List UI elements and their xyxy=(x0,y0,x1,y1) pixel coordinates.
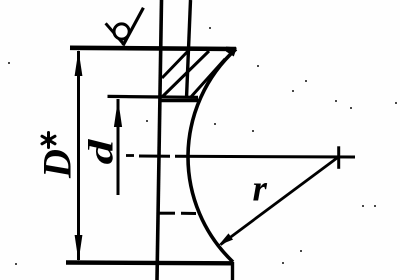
centerline segment 3 xyxy=(175,155,355,159)
wire: right-edge projection line (lower) xyxy=(231,262,234,280)
hidden line dash 1 xyxy=(159,212,175,215)
hatch line 3 xyxy=(190,59,225,98)
surface finish symbol: circle xyxy=(114,24,129,39)
arrowhead D* bottom xyxy=(75,235,83,262)
top-right corner blob xyxy=(226,47,237,57)
arrowhead r xyxy=(219,233,234,245)
wire: groove-bottom projection line (upper) xyxy=(187,0,191,98)
extension line for d xyxy=(108,96,199,97)
groove arc (right profile) xyxy=(188,49,236,262)
bottom face line xyxy=(66,260,233,265)
dimension line D* xyxy=(77,51,80,260)
dimension line d xyxy=(117,99,120,195)
hatch line 1 xyxy=(162,50,189,78)
top face line xyxy=(70,48,236,49)
hatch line 2 xyxy=(162,51,209,97)
wire: left face projection line (full height) xyxy=(157,0,162,280)
arrowhead d xyxy=(114,99,122,127)
centerline segment 2 xyxy=(139,155,170,158)
surface finish symbol: right stroke xyxy=(123,8,143,46)
svg-text:D: D xyxy=(35,149,80,179)
center cross tick xyxy=(337,146,340,169)
label D* asterisk xyxy=(42,133,55,148)
rim inner edge line xyxy=(160,99,200,102)
svg-text:r: r xyxy=(253,169,268,210)
centerline dash 1 xyxy=(126,154,134,157)
surface finish symbol: left arm xyxy=(106,23,124,44)
dimension line r xyxy=(221,157,339,245)
svg-text:d: d xyxy=(82,138,120,165)
arrowhead D* top xyxy=(75,50,83,76)
hidden line dash 2 xyxy=(181,212,196,215)
